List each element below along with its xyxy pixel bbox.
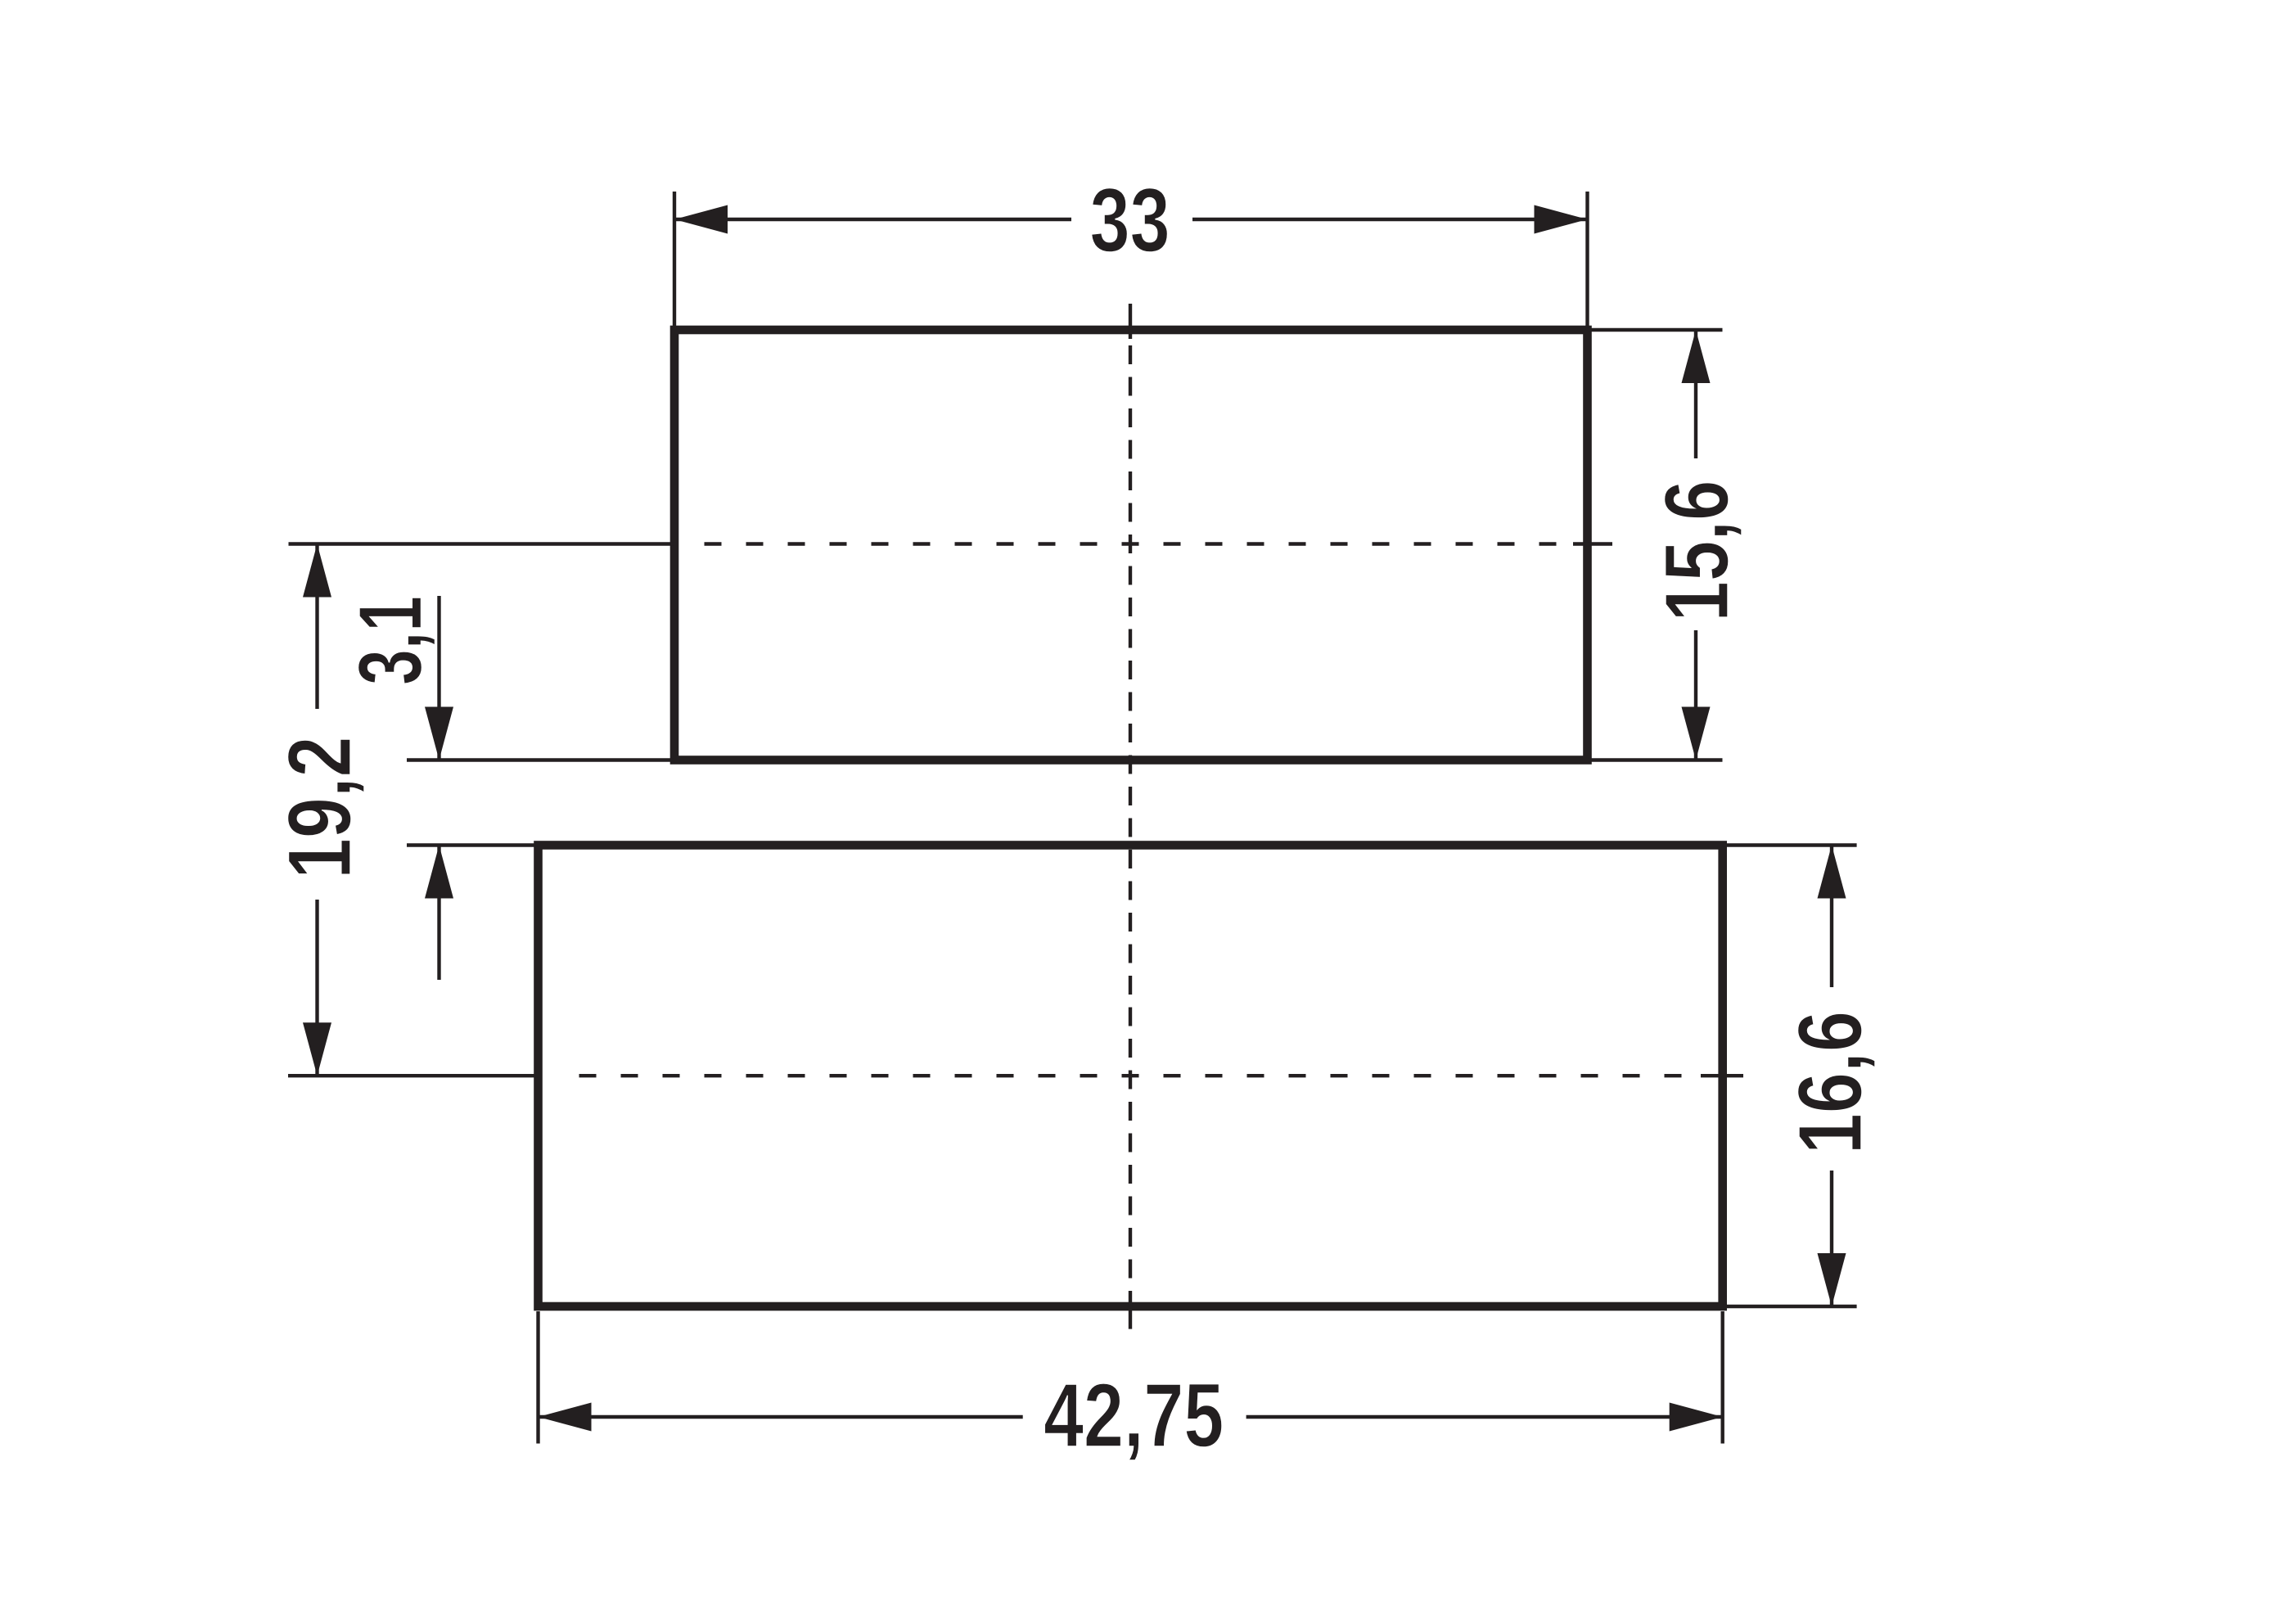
dimension line 3,1 with arrowheads [425, 596, 453, 980]
dimension line 42,75 with arrowheads [539, 1403, 1723, 1432]
dimension line 19,2 with arrowheads [303, 544, 331, 1076]
svg-text:33: 33 [1090, 171, 1170, 272]
dimension line 16,6 with arrowheads [1818, 846, 1846, 1307]
svg-text:15,6: 15,6 [1647, 480, 1747, 622]
extension lines for dimension 15,6 [1588, 330, 1723, 760]
label 42,75 [1044, 1366, 1224, 1467]
extension lines for dimension 33 [674, 192, 1588, 330]
extension lines for dimension 42,75 [539, 1311, 1723, 1444]
extension line for dimension 19,2 (top) [0, 0, 1, 1]
bottom cutout rectangle (42.75 x 16.6) [539, 846, 1723, 1307]
svg-text:42,75: 42,75 [1044, 1366, 1224, 1467]
svg-text:16,6: 16,6 [1780, 1011, 1881, 1154]
horizontal centerline of top cutout [289, 542, 1613, 545]
svg-text:3,1: 3,1 [341, 596, 441, 685]
label 19,2 [269, 737, 370, 879]
top cutout rectangle (33 x 15.6) [674, 330, 1588, 760]
label 15,6 [1647, 480, 1747, 622]
horizontal centerline of bottom cutout [288, 1074, 1743, 1077]
label 3,1 [341, 596, 441, 685]
extension lines for dimension 3,1 [407, 760, 674, 846]
label 16,6 [1780, 1011, 1881, 1154]
svg-text:19,2: 19,2 [269, 737, 370, 879]
label 33 [1090, 171, 1170, 272]
vertical centerline [1129, 304, 1132, 1329]
dimension line 33 with arrowheads [674, 205, 1588, 234]
dimension line 15,6 with arrowheads [1682, 330, 1711, 760]
extension lines for dimension 16,6 [1723, 846, 1857, 1307]
